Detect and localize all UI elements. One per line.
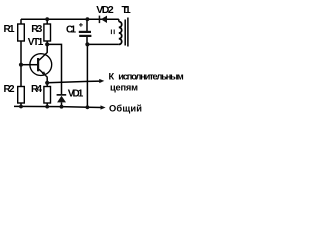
wire R3 top lead (46, 19, 48, 24)
transformer T1 core line 2 (127, 18, 129, 47)
node dot ground-right (86, 105, 90, 109)
resistor R1 (18, 24, 25, 41)
svg-text:C1: C1 (66, 25, 76, 36)
wire ground rail (14, 106, 102, 107)
wire left column (R1-base-R2) (20, 19, 22, 24)
resistor R2 (18, 87, 25, 104)
arrowhead output common (101, 105, 106, 109)
wire VD1 branch jog from collector node (47, 44, 61, 94)
wire collector vertical (46, 44, 48, 52)
resistor R4 (44, 87, 51, 104)
node dot collector (45, 42, 49, 46)
svg-text:Общий: Общий (109, 104, 142, 114)
node dot ground-R4 (45, 105, 49, 109)
svg-text:R1: R1 (4, 24, 15, 35)
svg-text:К: К (109, 71, 115, 81)
node dot ground-VD1 (60, 105, 64, 109)
node dot base (19, 63, 23, 67)
wire R3 bottom to collector node (46, 41, 48, 44)
node dot emitter (45, 81, 49, 85)
wire node B vertical down right side (86, 44, 88, 107)
capacitor C1 (79, 23, 92, 37)
diode VD2 (99, 16, 107, 24)
wire C1 bottom lead to node B (86, 37, 88, 45)
wire VD1 anode to ground rail (61, 103, 63, 107)
svg-text:VT1: VT1 (28, 37, 44, 48)
svg-text:VD1: VD1 (68, 89, 84, 100)
node dot B (C1 bottom) (85, 42, 89, 46)
wire base (21, 64, 37, 66)
svg-text:R4: R4 (31, 84, 42, 95)
transistor VT1 (30, 52, 52, 77)
wire C1 top lead (86, 19, 88, 31)
transformer winding numeral II (111, 30, 114, 35)
node dot ground-R2 (19, 105, 23, 109)
wire R1 bottom to base node (20, 41, 22, 87)
wire emitter output 1b (47, 81, 101, 83)
svg-text:VD2: VD2 (96, 4, 114, 16)
wire transformer primary top bend (118, 19, 120, 21)
diode VD1 (57, 94, 67, 102)
wire R2 bottom to ground rail (20, 103, 22, 107)
arrowhead output 1b (99, 79, 104, 83)
wire top rail (21, 18, 119, 20)
resistor R3 (44, 24, 51, 41)
svg-text:R2: R2 (4, 84, 15, 95)
svg-text:T1: T1 (122, 4, 131, 16)
transformer T1 winding I (119, 22, 122, 45)
wire node B to transformer winding bottom (87, 43, 118, 45)
svg-text:R3: R3 (31, 24, 42, 35)
transformer T1 core line 1 (124, 20, 126, 46)
node dot rail-C1 (86, 17, 90, 21)
node dot rail-R3 (45, 17, 49, 21)
wire emitter vertical to node (46, 77, 48, 83)
wire R4 bottom lead (46, 103, 48, 107)
svg-text:цепям: цепям (110, 83, 138, 93)
wire R4 top lead (46, 83, 48, 87)
svg-text:исполнительным: исполнительным (118, 71, 184, 81)
